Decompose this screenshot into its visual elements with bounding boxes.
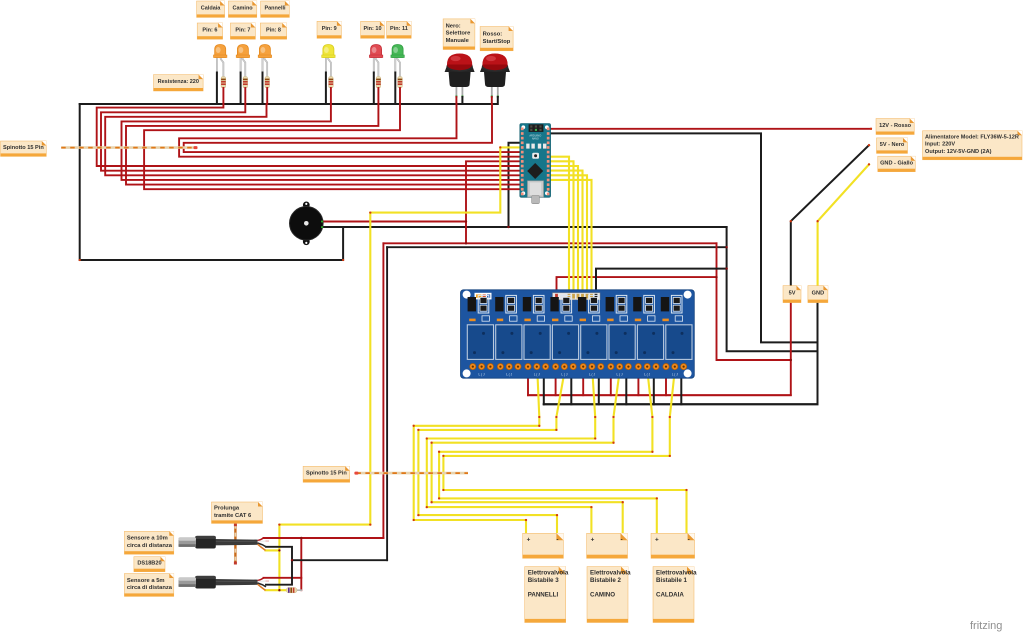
spinotto 15 pin cable 2 <box>354 472 468 475</box>
wire: relay NC black riser <box>625 371 627 404</box>
svg-text:DS18B20: DS18B20 <box>137 561 161 567</box>
note Pin 11 <box>387 21 412 38</box>
LED 6 <box>391 45 404 105</box>
note Pin 7 <box>230 23 255 39</box>
svg-text:Output: 12V-5V-GND (2A): Output: 12V-5V-GND (2A) <box>925 149 992 155</box>
wire: GND vertical right <box>727 227 818 351</box>
wire: relay COM red riser <box>637 371 639 395</box>
note Pin 9 <box>317 21 341 38</box>
wire: relay black bus <box>544 403 818 405</box>
wire: valve yellow 5 <box>439 370 657 535</box>
wire: relay IN2 yellow <box>550 161 574 294</box>
resistor 5k1 leads <box>297 589 301 591</box>
wire: data yellow <box>279 147 521 590</box>
svg-text:Pin: 10: Pin: 10 <box>363 26 381 32</box>
wire: red power row <box>383 242 716 244</box>
wire: signal 6 red nest <box>144 104 521 189</box>
wire: nano GND right <box>550 133 818 342</box>
svg-text:L ( J: L ( J <box>561 372 567 376</box>
wire: relay GND <box>596 269 727 294</box>
svg-text:Pin: 9: Pin: 9 <box>322 26 337 32</box>
svg-text:NANO: NANO <box>532 138 539 141</box>
svg-text:L ( J: L ( J <box>672 372 678 376</box>
wire: relay NC black riser <box>598 371 600 404</box>
svg-text:Prolunga: Prolunga <box>214 506 240 512</box>
svg-text:Rosso:: Rosso: <box>483 32 503 38</box>
wire: relay IN6 yellow <box>550 180 592 294</box>
note valve label <box>525 567 569 623</box>
svg-text:CALDAIA: CALDAIA <box>656 591 684 598</box>
wire: signal 1 red nest <box>97 104 521 166</box>
wire: GND giallo diagonal <box>818 164 869 287</box>
wire: relay IN4 yellow <box>550 171 583 294</box>
wire: buzzer red <box>322 221 467 223</box>
LED 3 <box>258 45 271 105</box>
wire: sensor1 red <box>264 537 384 539</box>
note valve pins 1 <box>523 533 564 558</box>
wire: black power row <box>387 246 726 248</box>
wire: 12V red to note <box>550 128 871 130</box>
svg-text:Bistabile 1: Bistabile 1 <box>656 577 688 584</box>
wire: valve yellow 2 <box>418 370 564 535</box>
sensor DS18B20 1 <box>179 536 270 551</box>
wire: relay COM red riser <box>610 371 612 395</box>
wire: relay IN3 yellow <box>550 166 578 294</box>
wire: ground bus top <box>80 103 498 105</box>
svg-text:Spinotto 15 Pin: Spinotto 15 Pin <box>306 471 347 477</box>
svg-text:-: - <box>688 537 690 544</box>
wire: valve yellow 6 <box>443 370 686 535</box>
svg-text:Bistabile 2: Bistabile 2 <box>590 577 622 584</box>
wire: valve yellow 3 <box>427 370 595 535</box>
wire: relay NC black riser <box>680 371 682 404</box>
wire: relay COM red riser <box>527 371 529 395</box>
wire: red link to 5V rail <box>717 243 791 360</box>
svg-text:Bistabile 3: Bistabile 3 <box>528 577 560 584</box>
LED 2 <box>236 45 249 105</box>
wire: red to sensors <box>382 243 384 538</box>
note Sensore 10m <box>124 531 173 554</box>
wire: black to sensors <box>386 247 388 560</box>
note Pannelli <box>261 1 290 17</box>
svg-text:GND: GND <box>812 291 824 297</box>
wire: ground loop <box>80 104 343 260</box>
svg-text:5V: 5V <box>789 291 796 297</box>
note Sensore 5m <box>124 574 173 597</box>
svg-text:-: - <box>556 537 558 544</box>
wire: sensor black net <box>266 547 292 585</box>
wire: relay COM red riser <box>665 371 667 395</box>
prolunga CAT6 <box>234 523 237 564</box>
svg-text:L ( J: L ( J <box>534 372 540 376</box>
svg-text:Resistenza: 220: Resistenza: 220 <box>158 79 199 85</box>
svg-text:+: + <box>527 537 531 544</box>
wire: sensor1 data stub <box>266 549 280 551</box>
svg-text:Start/Stop: Start/Stop <box>483 39 511 45</box>
svg-text:Elettrovalvola: Elettrovalvola <box>528 570 569 577</box>
svg-text:Elettrovalvola: Elettrovalvola <box>656 570 697 577</box>
svg-text:Camino: Camino <box>233 6 254 12</box>
note valve label <box>587 567 631 623</box>
wire: relay NC black riser <box>570 371 572 404</box>
svg-text:L ( J: L ( J <box>589 372 595 376</box>
wire: relay COM red riser <box>555 371 557 395</box>
note Alimentatore <box>923 131 1023 160</box>
note 12V Rosso <box>876 119 914 135</box>
wire: signal 8 red nest <box>184 104 521 152</box>
note valve pins 2 <box>587 533 628 558</box>
svg-text:Elettrovalvola: Elettrovalvola <box>590 570 631 577</box>
svg-text:Sensore a 10m: Sensore a 10m <box>127 536 168 542</box>
svg-text:circa di distanza: circa di distanza <box>127 585 173 591</box>
svg-text:Alimentatore Model: FLY36W-5-1: Alimentatore Model: FLY36W-5-12R <box>925 135 1019 141</box>
svg-text:Sensore a 5m: Sensore a 5m <box>127 578 165 584</box>
svg-text:+: + <box>591 537 595 544</box>
wire: GND black below note <box>544 301 818 404</box>
svg-text:Pin: 7: Pin: 7 <box>235 28 250 34</box>
note 5V <box>783 286 801 303</box>
svg-text:+: + <box>655 537 659 544</box>
svg-text:Pin: 6: Pin: 6 <box>202 28 217 34</box>
svg-text:L ( J: L ( J <box>506 372 512 376</box>
svg-text:Nero:: Nero: <box>446 23 461 29</box>
relay board 8ch <box>461 290 695 378</box>
note GND <box>808 286 828 303</box>
note Pin 6 <box>197 23 222 39</box>
wire: 5V nero diagonal <box>791 145 869 287</box>
wire: relay NC black riser <box>543 371 545 404</box>
note valve pins 3 <box>651 533 695 558</box>
note GND Giallo <box>878 156 916 172</box>
wire: relay IN1 yellow <box>550 157 569 294</box>
resistor 5k1 <box>286 588 297 593</box>
svg-text:12V - Rosso: 12V - Rosso <box>879 123 912 129</box>
note Pin 10 <box>361 21 385 38</box>
sensor DS18B20 2 <box>179 576 270 591</box>
note Spinotto 2 <box>303 466 350 482</box>
svg-text:Pannelli: Pannelli <box>264 6 286 12</box>
wire: 5V red below note <box>528 301 791 395</box>
wire: valve yellow 1 <box>414 370 540 535</box>
note Caldaia <box>197 1 225 17</box>
spinotto 15 pin cable 1 <box>61 146 197 149</box>
arduino nano <box>520 124 551 204</box>
note DS18B20 <box>134 557 165 572</box>
svg-text:L ( J: L ( J <box>617 372 623 376</box>
svg-text:L ( J: L ( J <box>644 372 650 376</box>
buzzer <box>290 202 324 246</box>
note 5V Nero <box>877 138 908 154</box>
wire: relay COM red riser <box>582 371 584 395</box>
svg-text:fritzing: fritzing <box>970 620 1002 632</box>
note Camino <box>228 1 256 17</box>
wire: relay NC black riser <box>653 371 655 404</box>
wire: sensor red drop <box>300 538 302 590</box>
note Rosso Start/Stop <box>480 27 513 51</box>
svg-text:Caldaia: Caldaia <box>201 6 222 12</box>
note Pin 8 <box>260 23 286 39</box>
wire: signal 2 red nest <box>101 104 521 171</box>
wire: signal 5 red nest <box>126 104 521 185</box>
wire: sensor black row <box>292 559 387 561</box>
wire: valve yellow 4 <box>432 370 623 535</box>
note valve label <box>653 567 697 623</box>
wire: signal 7 red nest <box>179 104 521 157</box>
LED 4 <box>322 45 335 105</box>
wire: relay IN5 yellow <box>550 175 587 294</box>
note Prolunga <box>212 502 263 523</box>
wire: ground horizontal to GND net <box>322 226 727 228</box>
wire: 5V from nano <box>466 161 521 243</box>
wire: signal 4 red nest <box>122 104 522 180</box>
note Spinotto 1 <box>1 141 47 156</box>
pushbutton Nero Selettore <box>445 54 475 105</box>
svg-text:Pin: 8: Pin: 8 <box>266 28 281 34</box>
wire: sensor2 red <box>264 577 302 579</box>
svg-text:-: - <box>621 537 623 544</box>
wire: nano GND riser <box>509 143 522 227</box>
wire: signal 3 red nest <box>105 104 521 175</box>
svg-text:GND - Giallo: GND - Giallo <box>880 160 914 166</box>
wire: sensor2 data line <box>266 589 287 591</box>
svg-text:5V - Nero: 5V - Nero <box>880 142 905 148</box>
svg-text:Manuale: Manuale <box>446 38 470 44</box>
pushbutton Rosso Start/Stop <box>480 54 510 105</box>
wire: relay VCC <box>557 277 717 294</box>
svg-text:Input: 220V: Input: 220V <box>925 142 955 148</box>
LED 1 <box>214 45 227 105</box>
svg-text:Spinotto 15 Pin: Spinotto 15 Pin <box>3 145 44 151</box>
svg-text:L ( J: L ( J <box>479 372 485 376</box>
svg-text:PANNELLI: PANNELLI <box>528 591 559 598</box>
svg-text:circa di distanza: circa di distanza <box>127 543 173 549</box>
svg-text:Selettore: Selettore <box>446 31 472 37</box>
note Nero Selettore <box>443 19 475 50</box>
wire: relay red bus <box>528 394 791 396</box>
svg-text:CAMINO: CAMINO <box>590 591 615 598</box>
note Resistenza 220 <box>154 75 204 91</box>
svg-text:Pin: 11: Pin: 11 <box>390 26 408 32</box>
LED 5 <box>369 45 382 105</box>
svg-text:tramite CAT 6: tramite CAT 6 <box>214 513 252 519</box>
